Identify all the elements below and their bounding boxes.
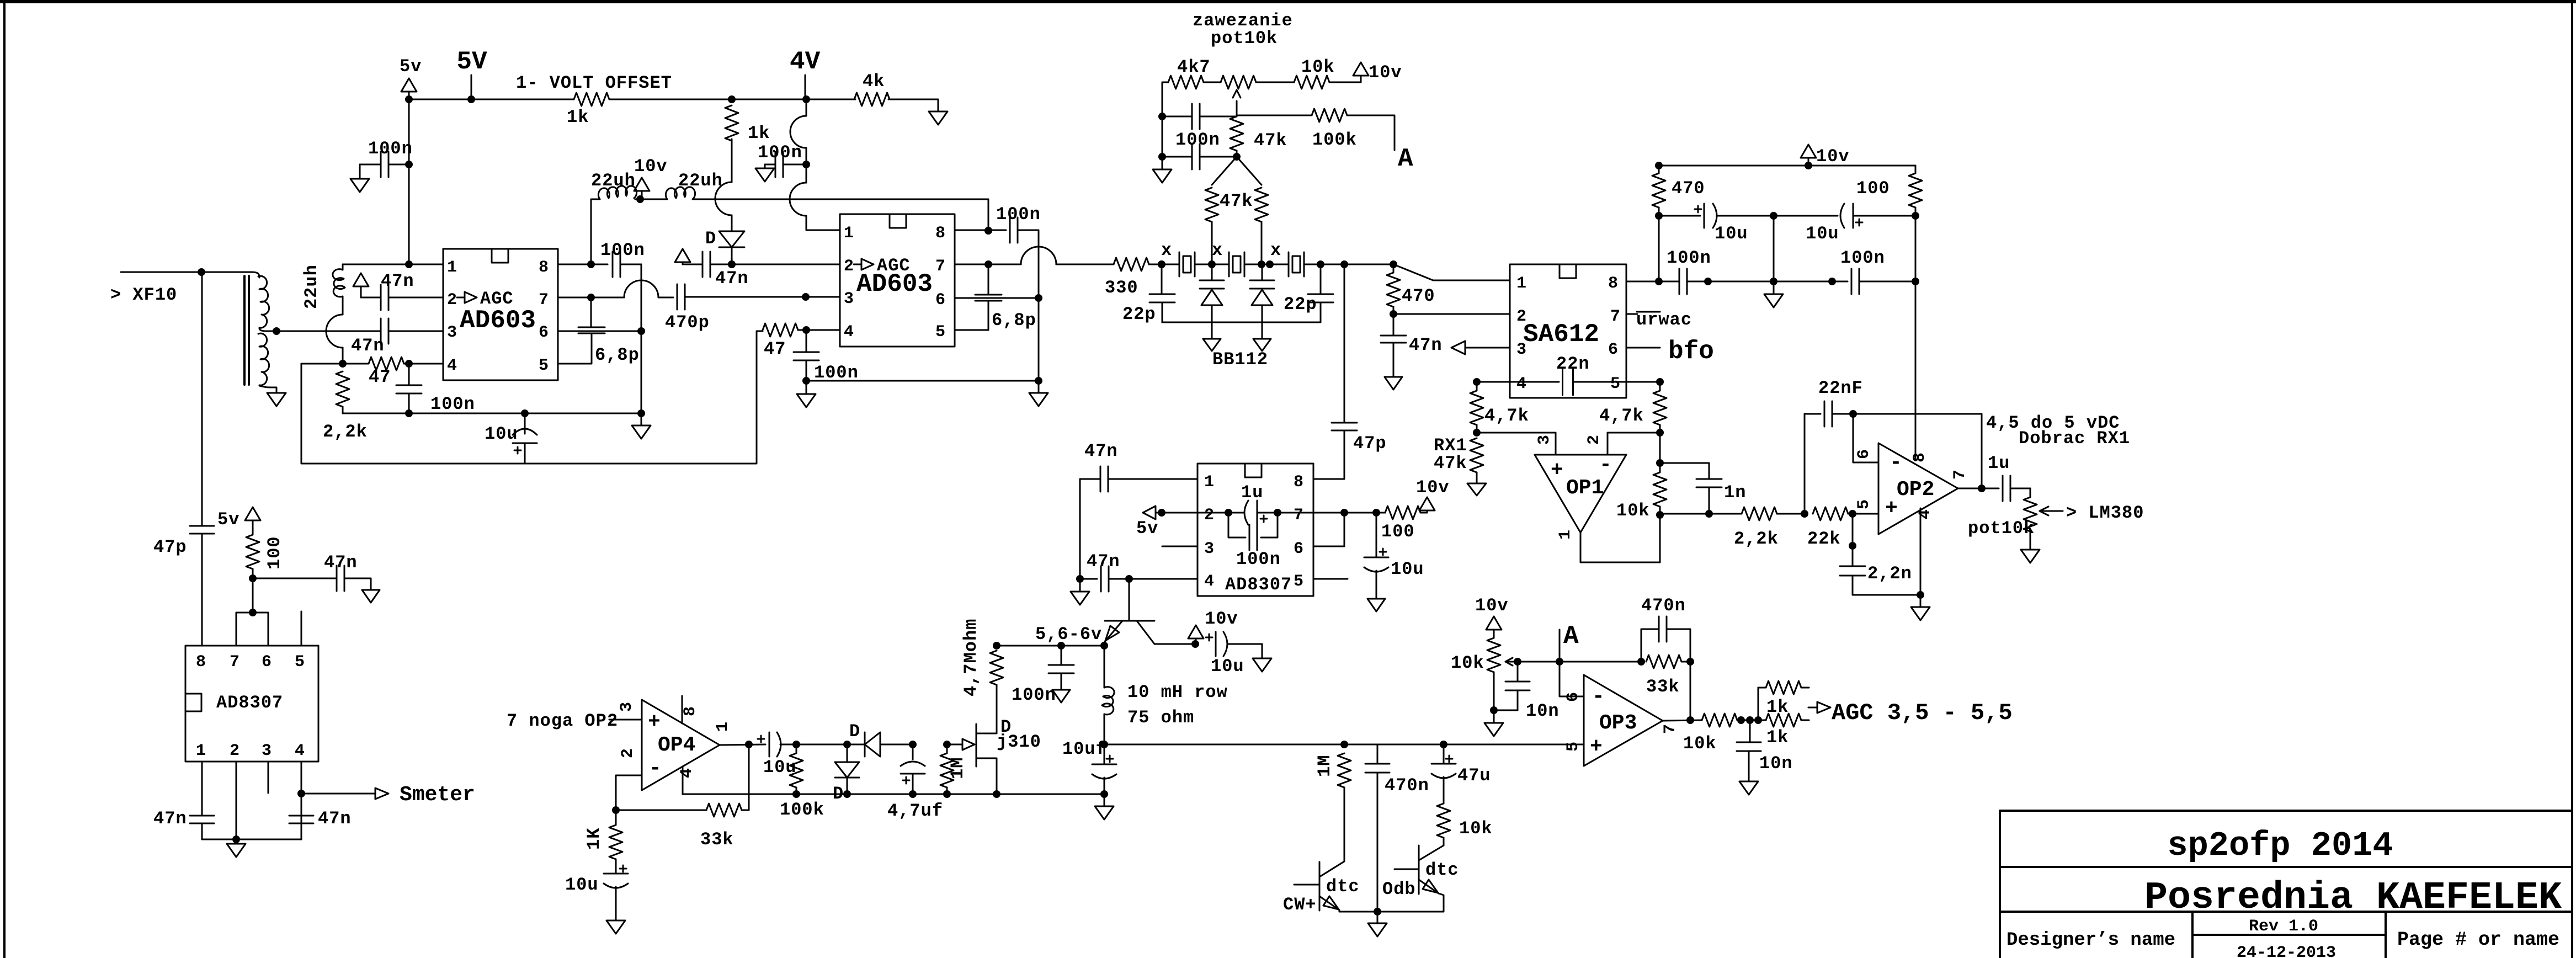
resistor 1M detector (946, 744, 948, 753)
capacitor 10u follower (1206, 634, 1212, 641)
net 10v arrow zawezanie (1353, 62, 1369, 76)
svg-text:4: 4 (1516, 375, 1526, 393)
resistor 100 supply (1915, 166, 1917, 173)
wire 4V branch to pin1 (806, 216, 840, 230)
net 10v arrow at 22uh (634, 178, 650, 191)
svg-text:47n: 47n (381, 271, 414, 291)
svg-text:7: 7 (539, 291, 549, 310)
net 10v arrow AD8307-2 (1419, 497, 1435, 510)
svg-text:100k: 100k (1312, 130, 1357, 150)
svg-text:47n: 47n (715, 268, 749, 289)
capacitor 1n (1660, 463, 1709, 479)
wire smeter supply (252, 578, 254, 613)
wire smeter ground rail (202, 839, 301, 840)
capacitor 10u supply left (1659, 215, 1700, 217)
svg-text:1M: 1M (1314, 755, 1335, 777)
svg-text:22uh: 22uh (301, 264, 322, 309)
svg-text:x: x (1161, 240, 1172, 260)
svg-text:6: 6 (539, 323, 549, 342)
svg-text:10v: 10v (1369, 62, 1402, 83)
capacitor 47n AD8307-2 pin1 (1108, 478, 1197, 480)
svg-text:A: A (1563, 622, 1579, 651)
svg-text:47n: 47n (318, 808, 352, 829)
stub AD8307-1 pin5 (301, 611, 302, 646)
svg-text:OP2: OP2 (1897, 478, 1934, 502)
svg-text:100n: 100n (1840, 248, 1885, 268)
wire ground rail 690 (806, 380, 1039, 382)
stub OP4 pin4 (682, 767, 684, 794)
svg-text:47n: 47n (1087, 551, 1120, 572)
resistor 47 second (763, 323, 798, 337)
svg-text:75 ohm: 75 ohm (1127, 707, 1194, 728)
svg-text:2: 2 (619, 748, 637, 758)
title block frame (2000, 811, 2572, 958)
wire OP1 output loop (1580, 515, 1660, 562)
svg-text:33k: 33k (1646, 677, 1680, 697)
svg-text:4: 4 (295, 742, 305, 760)
pot wiper AGC (1505, 658, 1518, 666)
svg-text:100n: 100n (430, 394, 475, 414)
wire AD8307-1 pin4 (301, 762, 302, 839)
wire pin6 second (955, 297, 1039, 299)
svg-text:Odb: Odb (1382, 879, 1416, 900)
resistor 100k to A (1237, 115, 1312, 116)
svg-text:5v: 5v (217, 509, 239, 530)
capacitor 47u (1443, 744, 1445, 764)
wire hop lower on 4V branch (806, 164, 807, 183)
ground pot AGC (1484, 710, 1503, 736)
svg-text:bfo: bfo (1668, 337, 1714, 366)
svg-text:1k: 1k (748, 123, 770, 143)
log amp ic AD8307 first box (185, 646, 318, 762)
svg-text:100k: 100k (780, 800, 824, 820)
svg-text:7: 7 (1294, 506, 1303, 525)
svg-text:AD8307: AD8307 (216, 693, 283, 713)
ground zawezanie (1153, 169, 1172, 183)
svg-text:22p: 22p (1122, 304, 1156, 324)
svg-text:22n: 22n (1556, 354, 1590, 374)
svg-text:470p: 470p (665, 312, 710, 333)
capacitor 6,8p second (988, 264, 989, 294)
ground 47n smeter top (362, 590, 380, 603)
stub urwac pin7 (1626, 313, 1637, 315)
capacitor 10u OP4 (620, 865, 626, 872)
svg-text:3: 3 (844, 290, 854, 308)
connector Smeter arrow (301, 788, 388, 799)
ground at 4k (929, 111, 948, 125)
inductor 22uh right (666, 187, 695, 199)
svg-text:1u: 1u (1988, 453, 2010, 473)
svg-text:-: - (1592, 685, 1605, 709)
svg-text:5v: 5v (1136, 518, 1158, 539)
wire supply center drop (1773, 216, 1775, 281)
svg-text:dtc: dtc (1425, 860, 1459, 880)
capacitor 100n AGC first (408, 364, 410, 385)
wire crystal ladder (1162, 264, 1396, 265)
resistor 10k OP1 (1659, 433, 1661, 472)
svg-text:1- VOLT OFFSET: 1- VOLT OFFSET (516, 73, 672, 93)
ground 10u AD8307-2 (1367, 599, 1385, 611)
svg-text:2: 2 (1204, 506, 1214, 525)
svg-text:AD603: AD603 (460, 306, 536, 335)
wire AD8307-2 pin4 to base (1129, 579, 1130, 621)
power arrow 5v smeter (245, 507, 260, 520)
svg-text:10u: 10u (1806, 223, 1839, 244)
svg-text:22p: 22p (1284, 294, 1317, 315)
page border top (0, 0, 2576, 3)
svg-text:6: 6 (1608, 340, 1618, 359)
svg-text:8: 8 (1608, 274, 1618, 293)
ground pin6 column second (1029, 381, 1048, 406)
wire OP2 minus input (1853, 414, 1878, 462)
svg-text:Designer’s name: Designer’s name (2006, 930, 2175, 951)
wire pin1 AD603 first (343, 264, 409, 265)
transistor dtc CW+ (1319, 862, 1321, 911)
transistor dtc Odb (1418, 845, 1420, 894)
resistor 1M mute (1338, 753, 1351, 787)
ground 100n follower (1052, 690, 1070, 702)
wire XF10 down to 47p (201, 272, 203, 526)
resistor 1k upper (1758, 688, 1759, 720)
svg-text:100n: 100n (1175, 130, 1220, 150)
svg-text:6,8p: 6,8p (992, 310, 1036, 331)
page border left (3, 0, 6, 958)
input arrow SA612 pin3 (1451, 341, 1510, 354)
wire top rail (409, 99, 938, 111)
transformer T1 (251, 272, 259, 278)
svg-text:100n: 100n (1236, 549, 1281, 570)
svg-text:47n: 47n (1409, 335, 1443, 355)
resistor 100 AD8307-2 (1385, 506, 1420, 519)
svg-text:4,7k: 4,7k (1484, 406, 1529, 426)
svg-text:Posrednia KAEFELEK: Posrednia KAEFELEK (2144, 876, 2562, 920)
capacitor 470n feedback (1641, 629, 1659, 662)
svg-text:22uh: 22uh (678, 171, 723, 191)
svg-text:BB112: BB112 (1212, 349, 1268, 370)
wire 22nF to output (1853, 414, 1982, 487)
op-amp ic AD603 second box (840, 214, 955, 347)
diode D shunt (835, 744, 859, 778)
diode D to AGC (731, 215, 733, 231)
net 5v power arrow (401, 78, 417, 92)
svg-text:7: 7 (1661, 724, 1680, 734)
capacitor 100n at 4V branch (775, 152, 776, 177)
svg-text:10uf: 10uf (1062, 739, 1107, 759)
svg-text:47u: 47u (1457, 765, 1491, 786)
ground 10n OP3 (1739, 781, 1758, 795)
capacitor 1u inside AD8307-2 (1244, 501, 1248, 525)
op-amp ic AD603 first box (443, 249, 558, 380)
wire AGC setpoint (1518, 661, 1641, 663)
svg-text:2: 2 (230, 742, 239, 760)
svg-text:AGC: AGC (877, 256, 911, 276)
svg-text:4: 4 (1916, 509, 1935, 519)
svg-text:10v: 10v (1475, 595, 1509, 616)
wire pin8 gnd column second (1038, 230, 1040, 381)
svg-text:1K: 1K (584, 828, 604, 850)
svg-text:47k: 47k (1220, 191, 1253, 211)
svg-text:5V: 5V (456, 47, 487, 76)
svg-text:D: D (833, 784, 844, 804)
wire AD8307-2 pin7 to supply (1313, 512, 1385, 514)
svg-text:6: 6 (1564, 692, 1583, 702)
wire pin8 gnd column first (641, 264, 642, 413)
svg-text:47: 47 (369, 367, 391, 387)
svg-text:100n: 100n (758, 142, 802, 163)
mixer ic SA612 box (1510, 264, 1626, 398)
resistor 1k horizontal (574, 93, 609, 106)
svg-text:5: 5 (1610, 375, 1620, 393)
capacitor 100n pin8 first (558, 264, 591, 265)
svg-text:1: 1 (714, 722, 732, 732)
resistor 33k feedback (1646, 655, 1681, 668)
svg-text:2,2k: 2,2k (1734, 529, 1779, 549)
resistor RX1 47k (1470, 438, 1483, 472)
svg-text:10u: 10u (1715, 223, 1748, 244)
ground 10u OP4 (606, 920, 625, 934)
resistor 1K OP4 (615, 810, 617, 824)
capacitor 10uf (1104, 744, 1105, 764)
svg-text:1k: 1k (1766, 727, 1789, 748)
power arrow pin2 first (353, 273, 369, 286)
capacitor 2,2n (1852, 514, 1854, 546)
svg-text:8: 8 (681, 706, 700, 716)
wire pin7 second with hop (955, 264, 988, 265)
capacitor 47n smeter top (253, 578, 337, 579)
power arrow AGC second (675, 249, 690, 262)
capacitor 100n pin4 second (806, 330, 807, 352)
svg-text:100n: 100n (368, 139, 413, 159)
stub AD8307-2 pin3 (1162, 546, 1197, 547)
arrow 10v RX1 (1467, 483, 1486, 496)
svg-text:7: 7 (1951, 470, 1970, 480)
capacitor 22n (1477, 381, 1559, 383)
pot wiper LM380 (2040, 507, 2063, 515)
svg-text:10u: 10u (1211, 656, 1244, 677)
resistor 4k7 (1162, 82, 1168, 83)
svg-text:1: 1 (196, 742, 206, 760)
ground pot10k (2021, 550, 2040, 563)
wire 4V branch upper (806, 99, 807, 116)
wire AGC bottom rail 749 (343, 413, 641, 414)
input arrow 5v AD8307-2 pin2 (1143, 506, 1244, 519)
pot wiper arrow zawezanie (1233, 90, 1241, 116)
AGC arrow inside AD603 second (854, 259, 874, 270)
svg-text:6: 6 (262, 653, 272, 672)
svg-text:4,7Mohm: 4,7Mohm (961, 619, 981, 696)
svg-text:1: 1 (1556, 530, 1575, 540)
svg-text:2: 2 (844, 257, 854, 276)
svg-text:D: D (705, 228, 716, 249)
svg-text:10n: 10n (1759, 753, 1793, 774)
svg-text:8: 8 (196, 653, 206, 672)
svg-text:5v: 5v (400, 56, 422, 77)
wire 22uh rail to AD603-2 pin8 (694, 199, 988, 231)
svg-text:47k: 47k (1434, 453, 1467, 473)
svg-text:3: 3 (1516, 340, 1526, 359)
node 4V label (805, 75, 806, 99)
svg-text:47n: 47n (324, 552, 358, 573)
svg-text:OP1: OP1 (1566, 476, 1604, 500)
svg-text:10k: 10k (1301, 57, 1335, 77)
capacitor 22p right (1320, 264, 1322, 294)
svg-text:100n: 100n (1667, 248, 1711, 268)
svg-text:24-12-2013: 24-12-2013 (2237, 944, 2336, 958)
op-amp OP4 triangle (642, 700, 720, 790)
capacitor 10u supply right (1774, 215, 1838, 217)
svg-text:5: 5 (295, 653, 305, 672)
svg-text:4V: 4V (790, 47, 821, 76)
ground varactor left (1203, 339, 1221, 351)
wire signal line to OP3 (1104, 744, 1584, 746)
svg-text:47n: 47n (1084, 441, 1118, 461)
wire hop on 1k-diode wire (715, 182, 732, 215)
wire SA612 pin5 stub (1626, 381, 1660, 383)
AGC arrow inside AD603 first (457, 292, 477, 303)
svg-text:3: 3 (262, 742, 272, 760)
wire detector node1 (796, 744, 847, 746)
wire AD8307-2 pins 7-6 tie (1313, 513, 1344, 546)
diode D series (847, 744, 865, 746)
svg-text:100n: 100n (1012, 685, 1056, 705)
op-amp OP3 triangle (1584, 675, 1663, 766)
wire OP3 output (1663, 720, 1702, 721)
capacitor 22p left (1161, 264, 1163, 294)
svg-text:10u: 10u (485, 424, 518, 444)
capacitor 47p AD8307-2 (1332, 422, 1357, 424)
svg-text:AD8307: AD8307 (1225, 574, 1292, 595)
svg-text:> LM380: > LM380 (2066, 503, 2144, 523)
svg-text:1: 1 (1516, 274, 1526, 293)
ground at 100n 4V (755, 168, 774, 182)
capacitor 100n follower (1061, 646, 1062, 665)
svg-text:10k: 10k (1459, 818, 1493, 839)
svg-text:3: 3 (447, 323, 457, 342)
wire OP2 pin4 (1920, 508, 1922, 595)
svg-text:+: + (1551, 459, 1563, 482)
svg-text:urwac: urwac (1636, 310, 1692, 330)
svg-text:-: - (1890, 451, 1902, 475)
wire pins 7-6 tie AD8307-1 (236, 613, 268, 646)
svg-text:47k: 47k (1254, 130, 1287, 151)
svg-text:100: 100 (1856, 178, 1890, 199)
svg-text:470n: 470n (1385, 775, 1429, 796)
capacitor 47n AD8307-2 pin4 (1080, 578, 1097, 580)
svg-text:47p: 47p (1353, 433, 1387, 454)
wire OP4 output (720, 744, 765, 745)
inductor 22uh vertical (342, 264, 344, 270)
wire hop 22uh over tap wire (326, 315, 343, 348)
svg-text:100: 100 (1381, 521, 1415, 542)
svg-text:6: 6 (1294, 540, 1303, 558)
capacitor 100n SA612 out right (1851, 269, 1853, 294)
capacitor 10u AGC (524, 413, 526, 434)
resistor 330 (1114, 258, 1149, 271)
wire pin7 first with hop (558, 297, 591, 299)
potentiometer pot10k output (2030, 488, 2031, 497)
svg-text:4: 4 (844, 323, 854, 342)
capacitor 10u detector (758, 736, 764, 742)
resistor 10k zawezanie (1294, 76, 1329, 89)
resistor 33k OP4 (616, 810, 706, 811)
svg-text:1k: 1k (567, 107, 589, 127)
svg-text:3: 3 (1535, 435, 1554, 445)
svg-text:4: 4 (1204, 572, 1214, 591)
wire 22p bottom rail (1162, 322, 1321, 323)
varactor BB112 right (1250, 264, 1274, 339)
resistor 4k horizontal (854, 93, 890, 106)
capacitor 100n SA612 out left (1626, 281, 1679, 283)
svg-text:8: 8 (935, 224, 945, 243)
svg-text:8: 8 (1910, 453, 1929, 462)
potentiometer 10k AGC (1487, 638, 1500, 672)
stub bfo pin6 (1626, 347, 1660, 349)
capacitor 1u OP2 (2002, 476, 2004, 501)
svg-text:8: 8 (1294, 473, 1303, 492)
svg-text:100: 100 (264, 536, 285, 570)
capacitor 47n AGC second (702, 252, 704, 277)
stub AD8307-1 pin3 (268, 762, 269, 793)
jfet j310 (976, 724, 977, 767)
ground at 100n 5v (350, 179, 369, 192)
capacitor 100n at 5v rail (408, 99, 410, 164)
resistor 4,7k left (1476, 382, 1478, 390)
resistor 10k mute (1437, 803, 1450, 838)
op-amp OP1 triangle (1535, 455, 1626, 533)
connector AGC arrow (1808, 702, 1830, 713)
svg-text:2: 2 (1585, 435, 1604, 445)
svg-text:5,6-6v: 5,6-6v (1035, 624, 1102, 645)
svg-text:Smeter: Smeter (400, 783, 475, 807)
svg-text:1n: 1n (1724, 482, 1746, 503)
svg-text:4: 4 (447, 356, 457, 375)
ground smeter (227, 839, 246, 857)
transistor emitter follower (1105, 620, 1154, 622)
svg-text:47p: 47p (153, 537, 187, 557)
page border right (2571, 0, 2573, 958)
wire crystal out to 47p (1344, 264, 1345, 423)
svg-text:5: 5 (1855, 499, 1874, 509)
svg-text:6: 6 (935, 291, 945, 310)
inductor 22uh left (591, 199, 600, 264)
svg-text:4: 4 (678, 768, 696, 778)
svg-text:1: 1 (447, 258, 457, 277)
resistor 47k diagonal left (1212, 157, 1237, 185)
capacitor 6,8p first (590, 297, 592, 327)
potentiometer body zawezanie (1221, 76, 1256, 89)
capacitor 470n mute (1377, 744, 1379, 764)
crystal X1 (1179, 252, 1180, 276)
wire XF10 input (121, 272, 251, 273)
svg-text:5: 5 (935, 323, 945, 342)
svg-text:sp2ofp 2014: sp2ofp 2014 (2167, 826, 2393, 865)
wire to SA612 pin1 (1393, 264, 1510, 280)
svg-text:D: D (849, 721, 860, 742)
capacitor 47p smeter (190, 525, 214, 527)
wire tap to pin3 (276, 331, 380, 332)
svg-text:7: 7 (935, 257, 945, 276)
wire OP1 out to 2,2k (1660, 513, 1742, 515)
svg-text:> XF10: > XF10 (110, 285, 177, 305)
wire SA612 pin2 (1393, 313, 1510, 315)
svg-text:10 mH row: 10 mH row (1127, 682, 1228, 702)
svg-text:47n: 47n (351, 336, 385, 356)
capacitor 47n smeter pin4 (289, 815, 313, 817)
svg-text:Rev 1.0: Rev 1.0 (2249, 917, 2318, 936)
resistor 1k vertical AGC divider (725, 105, 738, 141)
svg-text:470: 470 (1672, 178, 1705, 199)
svg-text:7: 7 (230, 653, 239, 672)
